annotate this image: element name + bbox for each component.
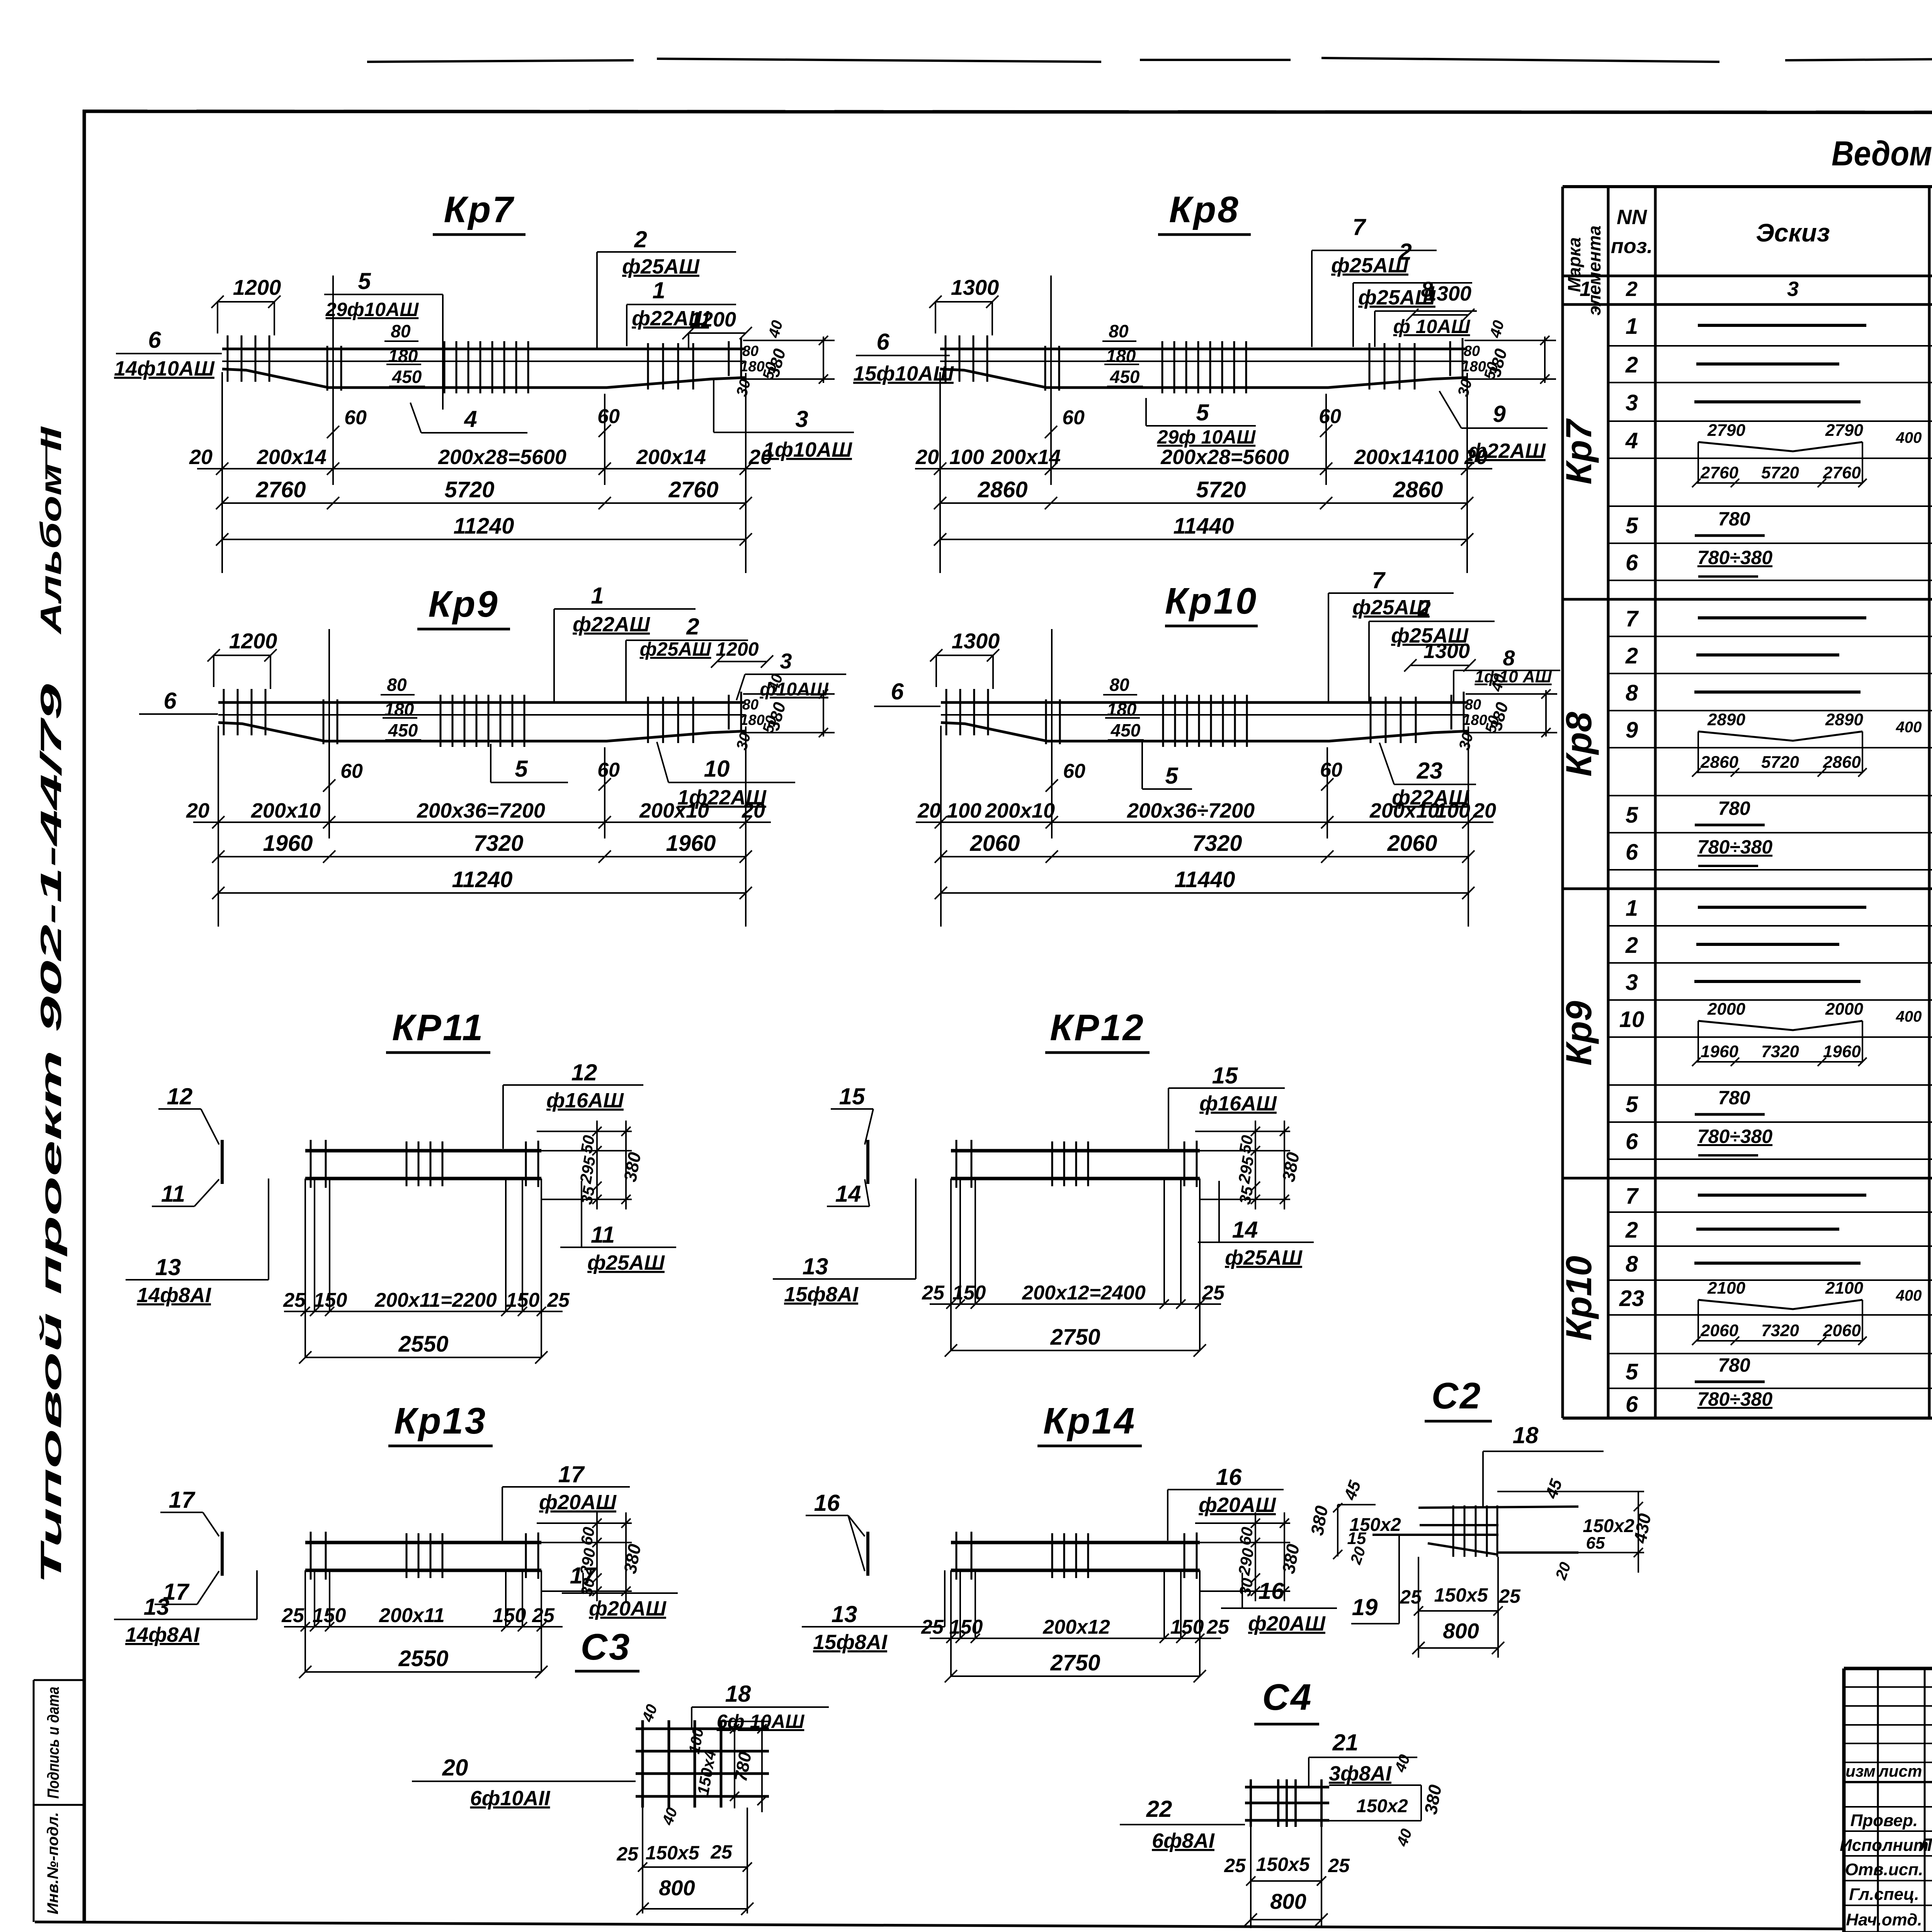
svg-text:КР11: КР11 — [392, 1007, 485, 1048]
svg-text:2550: 2550 — [398, 1646, 448, 1671]
svg-text:С2: С2 — [1432, 1375, 1482, 1417]
svg-text:25: 25 — [1206, 1616, 1230, 1638]
svg-text:80: 80 — [387, 675, 407, 695]
svg-text:7320: 7320 — [1761, 1321, 1799, 1340]
svg-text:60: 60 — [1063, 760, 1085, 782]
svg-text:13: 13 — [155, 1254, 181, 1280]
svg-text:лист: лист — [1878, 1762, 1922, 1780]
svg-text:20: 20 — [442, 1755, 468, 1781]
svg-text:14ф8АI: 14ф8АI — [137, 1284, 211, 1307]
svg-text:780: 780 — [1718, 1087, 1750, 1109]
svg-text:18: 18 — [725, 1681, 751, 1707]
svg-text:8: 8 — [1503, 646, 1515, 670]
svg-text:60: 60 — [597, 759, 620, 781]
svg-text:25: 25 — [1328, 1855, 1350, 1876]
svg-text:ф20АШ: ф20АШ — [1248, 1612, 1326, 1635]
svg-text:200x11: 200x11 — [379, 1604, 445, 1627]
svg-text:7: 7 — [1626, 606, 1639, 631]
svg-text:2: 2 — [686, 614, 699, 639]
svg-text:29ф10АШ: 29ф10АШ — [325, 299, 419, 320]
svg-text:ф22АШ: ф22АШ — [573, 613, 650, 636]
svg-text:ф20АШ: ф20АШ — [589, 1597, 667, 1620]
svg-text:80: 80 — [1465, 697, 1481, 713]
svg-text:30: 30 — [1454, 377, 1475, 398]
svg-text:2860: 2860 — [1823, 753, 1861, 772]
svg-text:2760: 2760 — [255, 477, 306, 502]
svg-text:60: 60 — [597, 405, 620, 428]
svg-text:13: 13 — [832, 1601, 857, 1627]
svg-text:200x28=5600: 200x28=5600 — [438, 446, 566, 469]
svg-text:7320: 7320 — [1761, 1042, 1799, 1061]
svg-text:290: 290 — [1235, 1547, 1257, 1577]
svg-text:3: 3 — [1626, 390, 1638, 415]
svg-text:200x12=2400: 200x12=2400 — [1022, 1282, 1146, 1304]
svg-text:Подпись и дата: Подпись и дата — [44, 1687, 62, 1799]
svg-text:7320: 7320 — [1192, 831, 1242, 856]
svg-text:10: 10 — [704, 756, 730, 782]
svg-text:15ф10АШ: 15ф10АШ — [853, 362, 954, 385]
svg-text:60: 60 — [577, 1526, 598, 1546]
svg-text:6: 6 — [891, 679, 904, 704]
svg-text:200x12: 200x12 — [1043, 1616, 1110, 1638]
svg-text:30: 30 — [733, 377, 754, 398]
svg-text:1200: 1200 — [233, 275, 281, 299]
svg-text:295: 295 — [576, 1155, 599, 1185]
svg-text:17: 17 — [558, 1461, 585, 1487]
svg-text:180: 180 — [388, 346, 418, 366]
svg-text:Нач.отд.: Нач.отд. — [1846, 1910, 1922, 1929]
svg-text:2060: 2060 — [1823, 1321, 1861, 1340]
svg-text:8: 8 — [1626, 1252, 1638, 1277]
svg-text:Кр9: Кр9 — [428, 583, 499, 625]
svg-text:2890: 2890 — [1707, 710, 1745, 729]
svg-text:3: 3 — [795, 406, 808, 432]
svg-text:11240: 11240 — [454, 514, 514, 539]
svg-text:15: 15 — [1212, 1063, 1238, 1088]
svg-text:Кр8: Кр8 — [1169, 189, 1240, 230]
svg-text:ф16АШ: ф16АШ — [546, 1089, 624, 1112]
svg-text:2760: 2760 — [1700, 463, 1738, 482]
svg-text:100: 100 — [949, 446, 984, 469]
svg-text:5: 5 — [358, 268, 371, 294]
svg-text:3: 3 — [1787, 277, 1799, 301]
svg-text:2790: 2790 — [1707, 421, 1745, 440]
svg-text:65: 65 — [1586, 1534, 1605, 1553]
svg-text:2890: 2890 — [1825, 710, 1863, 729]
svg-text:2060: 2060 — [1700, 1321, 1738, 1340]
svg-text:1: 1 — [652, 277, 665, 303]
svg-text:200x10: 200x10 — [251, 799, 321, 822]
svg-text:295: 295 — [1235, 1155, 1257, 1185]
svg-text:7: 7 — [1372, 567, 1386, 593]
svg-text:20: 20 — [189, 446, 213, 469]
svg-text:1960: 1960 — [666, 831, 716, 856]
svg-text:800: 800 — [659, 1876, 695, 1900]
svg-text:ф10АШ: ф10АШ — [760, 679, 829, 700]
svg-text:5720: 5720 — [1761, 463, 1799, 482]
svg-text:NN: NN — [1617, 206, 1647, 229]
svg-text:Кр10: Кр10 — [1558, 1256, 1599, 1341]
svg-text:40: 40 — [659, 1805, 681, 1828]
svg-text:Кр13: Кр13 — [394, 1400, 487, 1442]
svg-text:45: 45 — [1340, 1478, 1365, 1503]
svg-text:4: 4 — [1625, 428, 1638, 453]
svg-text:14: 14 — [835, 1181, 861, 1207]
svg-text:Отв.исп.: Отв.исп. — [1845, 1860, 1923, 1879]
svg-text:6ф10АII: 6ф10АII — [470, 1787, 551, 1810]
svg-text:60: 60 — [344, 406, 367, 429]
svg-text:элемента: элемента — [1584, 226, 1604, 316]
svg-text:6: 6 — [148, 327, 161, 353]
svg-text:17: 17 — [169, 1487, 196, 1513]
svg-text:50: 50 — [1236, 1134, 1257, 1155]
svg-text:1ф10АШ: 1ф10АШ — [763, 438, 852, 461]
svg-text:ф25АШ: ф25АШ — [1225, 1246, 1303, 1269]
svg-text:100: 100 — [947, 799, 981, 822]
svg-text:ф20АШ: ф20АШ — [539, 1491, 617, 1514]
svg-text:100: 100 — [1424, 446, 1459, 469]
svg-text:Исполнит: Исполнит — [1840, 1836, 1929, 1855]
svg-text:780÷380: 780÷380 — [1697, 547, 1772, 568]
svg-text:Кр7: Кр7 — [444, 189, 515, 230]
svg-text:15ф8АI: 15ф8АI — [813, 1631, 888, 1654]
svg-text:ф22АШ: ф22АШ — [1392, 786, 1469, 809]
svg-text:5: 5 — [1626, 1359, 1638, 1384]
svg-text:60: 60 — [1319, 405, 1341, 428]
svg-text:150x5: 150x5 — [645, 1842, 699, 1864]
svg-text:6: 6 — [1626, 840, 1638, 865]
svg-text:150: 150 — [493, 1604, 526, 1627]
svg-text:150: 150 — [506, 1289, 540, 1311]
svg-text:25: 25 — [1498, 1585, 1521, 1607]
svg-text:С3: С3 — [581, 1626, 631, 1668]
svg-text:1960: 1960 — [1701, 1042, 1738, 1061]
svg-text:2100: 2100 — [1825, 1279, 1863, 1298]
svg-text:380: 380 — [620, 1543, 645, 1575]
svg-text:150: 150 — [1170, 1616, 1204, 1638]
svg-text:1: 1 — [1580, 277, 1591, 301]
svg-text:780÷380: 780÷380 — [1697, 1388, 1772, 1410]
svg-text:25: 25 — [710, 1841, 733, 1863]
svg-text:1960: 1960 — [1823, 1042, 1861, 1061]
svg-text:60: 60 — [1236, 1526, 1257, 1546]
svg-text:380: 380 — [1278, 1543, 1303, 1575]
svg-text:25: 25 — [547, 1289, 570, 1311]
svg-text:200x36=7200: 200x36=7200 — [417, 799, 545, 822]
svg-text:2000: 2000 — [1707, 1000, 1745, 1019]
svg-text:400: 400 — [1896, 719, 1922, 736]
svg-text:5: 5 — [1196, 400, 1209, 425]
svg-text:380: 380 — [1278, 1151, 1303, 1184]
svg-text:30: 30 — [733, 731, 754, 752]
svg-text:40: 40 — [1486, 318, 1507, 340]
svg-text:200x14: 200x14 — [257, 446, 327, 469]
svg-text:780: 780 — [1718, 1354, 1750, 1376]
svg-text:2100: 2100 — [1707, 1279, 1745, 1298]
svg-text:380: 380 — [1420, 1783, 1446, 1816]
svg-text:5: 5 — [1626, 1092, 1638, 1117]
svg-text:180: 180 — [1106, 346, 1136, 366]
svg-text:2750: 2750 — [1050, 1650, 1100, 1675]
svg-text:2000: 2000 — [1825, 1000, 1863, 1019]
svg-text:2: 2 — [634, 226, 647, 252]
svg-text:1200: 1200 — [229, 629, 277, 653]
svg-text:С4: С4 — [1262, 1677, 1313, 1718]
svg-text:80: 80 — [391, 321, 411, 341]
svg-text:20: 20 — [1473, 799, 1496, 822]
svg-text:400: 400 — [1896, 1008, 1922, 1025]
svg-text:180: 180 — [1107, 699, 1137, 719]
svg-text:380: 380 — [1485, 347, 1511, 379]
svg-text:2: 2 — [1625, 352, 1638, 378]
svg-text:200x14: 200x14 — [1354, 446, 1424, 469]
svg-text:30: 30 — [1236, 1577, 1257, 1597]
svg-text:2060: 2060 — [969, 831, 1020, 856]
svg-text:20: 20 — [915, 446, 939, 469]
svg-text:ф25АШ: ф25АШ — [640, 638, 712, 660]
svg-text:800: 800 — [1443, 1619, 1479, 1643]
svg-text:7: 7 — [1626, 1184, 1639, 1209]
svg-text:16: 16 — [1216, 1464, 1242, 1490]
svg-text:2790: 2790 — [1825, 421, 1863, 440]
svg-text:Альбом II: Альбом II — [35, 426, 68, 635]
svg-text:2: 2 — [1625, 933, 1638, 958]
svg-text:8: 8 — [1626, 680, 1638, 706]
svg-text:30: 30 — [577, 1577, 598, 1597]
svg-text:3ф8АI: 3ф8АI — [1329, 1762, 1392, 1785]
svg-text:780: 780 — [1718, 508, 1750, 530]
svg-text:11440: 11440 — [1175, 867, 1235, 892]
svg-text:25: 25 — [281, 1604, 304, 1627]
svg-text:14ф10АШ: 14ф10АШ — [114, 357, 215, 380]
svg-text:200x14: 200x14 — [991, 446, 1061, 469]
svg-text:18: 18 — [1513, 1422, 1539, 1448]
svg-text:11: 11 — [161, 1181, 185, 1207]
svg-text:2750: 2750 — [1050, 1325, 1100, 1350]
svg-text:6: 6 — [876, 329, 889, 355]
svg-text:380: 380 — [764, 700, 789, 733]
svg-text:25: 25 — [283, 1289, 306, 1311]
svg-text:2: 2 — [1626, 277, 1638, 301]
svg-text:КР12: КР12 — [1050, 1007, 1145, 1048]
svg-text:5: 5 — [515, 756, 528, 782]
svg-text:Кр9: Кр9 — [1558, 1001, 1599, 1065]
svg-text:ф25АШ: ф25АШ — [587, 1251, 665, 1274]
svg-text:5720: 5720 — [444, 477, 494, 502]
svg-text:5: 5 — [1626, 513, 1638, 538]
svg-text:16: 16 — [814, 1490, 840, 1516]
svg-text:1: 1 — [1626, 896, 1638, 921]
svg-text:80: 80 — [1109, 321, 1129, 341]
svg-text:Провер.: Провер. — [1850, 1811, 1918, 1830]
svg-text:Гл.спец.: Гл.спец. — [1849, 1885, 1919, 1904]
svg-text:Инв.№-подл.: Инв.№-подл. — [44, 1812, 61, 1915]
svg-text:5: 5 — [1165, 763, 1179, 789]
svg-text:изм: изм — [1845, 1762, 1876, 1780]
svg-text:400: 400 — [1896, 1287, 1922, 1304]
svg-text:150x5: 150x5 — [1256, 1854, 1310, 1875]
svg-text:6: 6 — [1626, 1392, 1638, 1417]
svg-text:150x5: 150x5 — [1434, 1584, 1488, 1606]
svg-text:25: 25 — [921, 1616, 944, 1638]
svg-text:ф25АШ: ф25АШ — [622, 255, 700, 278]
svg-text:3: 3 — [1626, 970, 1638, 995]
svg-text:15ф8АI: 15ф8АI — [784, 1283, 859, 1306]
svg-text:780÷380: 780÷380 — [1697, 1126, 1772, 1147]
svg-text:1: 1 — [1626, 314, 1638, 339]
svg-text:2060: 2060 — [1387, 831, 1437, 856]
svg-text:1200: 1200 — [690, 308, 736, 331]
svg-text:поз.: поз. — [1611, 235, 1653, 258]
svg-text:20: 20 — [1552, 1560, 1574, 1582]
svg-text:200x36÷7200: 200x36÷7200 — [1127, 799, 1255, 822]
svg-text:5720: 5720 — [1761, 753, 1799, 772]
svg-text:20: 20 — [917, 799, 941, 822]
svg-text:14ф8АI: 14ф8АI — [125, 1623, 200, 1646]
svg-text:150: 150 — [313, 1604, 346, 1627]
svg-text:35: 35 — [1236, 1185, 1257, 1206]
svg-text:13: 13 — [803, 1253, 828, 1279]
svg-text:80: 80 — [742, 697, 759, 713]
svg-text:50: 50 — [577, 1134, 598, 1155]
svg-text:2860: 2860 — [1393, 477, 1443, 502]
svg-text:450: 450 — [1110, 367, 1140, 387]
svg-text:2550: 2550 — [398, 1332, 448, 1357]
svg-text:1960: 1960 — [263, 831, 313, 856]
svg-text:Кр8: Кр8 — [1558, 712, 1599, 777]
svg-text:200x14: 200x14 — [636, 446, 706, 469]
svg-text:13: 13 — [144, 1594, 170, 1620]
svg-text:60: 60 — [1062, 406, 1085, 429]
svg-text:6ф8АI: 6ф8АI — [1152, 1829, 1215, 1852]
svg-text:1300: 1300 — [951, 275, 999, 299]
svg-text:2: 2 — [1625, 643, 1638, 668]
svg-text:25: 25 — [1202, 1282, 1225, 1304]
svg-text:200x10: 200x10 — [985, 799, 1055, 822]
svg-text:Ведомость стержней на один эле: Ведомость стержней на один элемент — [1832, 134, 1932, 173]
svg-text:1300: 1300 — [952, 629, 1000, 653]
svg-text:12: 12 — [571, 1060, 597, 1085]
svg-text:15: 15 — [1347, 1529, 1366, 1548]
svg-text:80: 80 — [742, 343, 759, 359]
svg-text:150x4: 150x4 — [694, 1749, 719, 1796]
svg-text:45: 45 — [1542, 1476, 1566, 1501]
svg-text:40: 40 — [1391, 1752, 1413, 1775]
svg-text:ф 10АШ: ф 10АШ — [1393, 316, 1471, 337]
svg-text:380: 380 — [1307, 1504, 1332, 1537]
svg-text:60: 60 — [1320, 759, 1342, 781]
svg-text:23: 23 — [1619, 1286, 1645, 1311]
svg-text:1ф10 АШ: 1ф10 АШ — [1475, 667, 1552, 686]
svg-text:2760: 2760 — [668, 477, 718, 502]
svg-text:20: 20 — [186, 799, 209, 822]
svg-text:30: 30 — [1456, 731, 1476, 752]
svg-text:1ф22АШ: 1ф22АШ — [677, 786, 767, 809]
svg-text:ф20АШ: ф20АШ — [1199, 1493, 1276, 1517]
svg-text:23: 23 — [1417, 758, 1443, 784]
svg-text:11440: 11440 — [1173, 514, 1234, 539]
svg-text:ф25АШ: ф25АШ — [1331, 254, 1409, 277]
svg-text:200x28=5600: 200x28=5600 — [1160, 446, 1289, 469]
svg-text:2: 2 — [1625, 1218, 1638, 1243]
svg-text:2860: 2860 — [1700, 753, 1738, 772]
svg-text:380: 380 — [764, 347, 789, 379]
svg-text:Типовой проект 902-1-44/79: Типовой проект 902-1-44/79 — [35, 684, 68, 1584]
svg-text:150: 150 — [952, 1282, 986, 1304]
svg-text:Кр7: Кр7 — [1558, 418, 1599, 485]
svg-text:1: 1 — [591, 583, 604, 609]
svg-text:Кр10: Кр10 — [1165, 580, 1258, 622]
svg-text:Литвиненко: Литвиненко — [1918, 1835, 1932, 1855]
svg-text:150: 150 — [314, 1289, 347, 1311]
svg-text:2: 2 — [1417, 595, 1430, 621]
svg-text:800: 800 — [1270, 1889, 1306, 1913]
svg-text:200x11=2200: 200x11=2200 — [374, 1289, 497, 1311]
svg-text:7: 7 — [1352, 214, 1366, 240]
svg-text:3: 3 — [780, 649, 792, 673]
svg-text:400: 400 — [1896, 429, 1922, 446]
svg-text:2860: 2860 — [977, 477, 1027, 502]
svg-text:2: 2 — [1398, 239, 1412, 265]
svg-text:ф22АШ: ф22АШ — [1468, 439, 1546, 463]
svg-text:60: 60 — [340, 760, 363, 782]
svg-text:11: 11 — [591, 1222, 615, 1248]
svg-text:Эскиз: Эскиз — [1756, 218, 1830, 247]
svg-text:22: 22 — [1146, 1796, 1172, 1822]
svg-text:6: 6 — [1626, 550, 1638, 575]
svg-text:4: 4 — [464, 406, 477, 432]
svg-text:5720: 5720 — [1196, 477, 1246, 502]
svg-text:7320: 7320 — [473, 831, 523, 856]
svg-text:19: 19 — [1352, 1594, 1378, 1620]
svg-text:14: 14 — [1232, 1217, 1258, 1243]
svg-text:10: 10 — [1619, 1007, 1645, 1032]
svg-text:2760: 2760 — [1823, 463, 1861, 482]
svg-text:1300: 1300 — [1423, 639, 1470, 663]
svg-text:450: 450 — [1111, 720, 1141, 740]
svg-text:25: 25 — [532, 1604, 555, 1627]
svg-text:80: 80 — [1464, 343, 1480, 359]
svg-text:9: 9 — [1626, 718, 1638, 743]
svg-text:80: 80 — [1109, 675, 1129, 695]
svg-text:450: 450 — [392, 367, 422, 387]
svg-text:21: 21 — [1332, 1730, 1359, 1755]
svg-text:780÷380: 780÷380 — [1697, 836, 1772, 858]
svg-text:150: 150 — [949, 1616, 983, 1638]
svg-text:40: 40 — [765, 318, 786, 340]
svg-text:11240: 11240 — [452, 867, 513, 892]
svg-text:5: 5 — [1626, 803, 1638, 828]
svg-text:12: 12 — [167, 1083, 193, 1109]
svg-text:6: 6 — [1626, 1129, 1638, 1154]
svg-text:25: 25 — [922, 1282, 945, 1304]
svg-text:25: 25 — [1224, 1855, 1246, 1876]
svg-text:6: 6 — [163, 688, 177, 714]
svg-text:9: 9 — [1493, 401, 1506, 427]
svg-text:ф16АШ: ф16АШ — [1199, 1092, 1277, 1115]
svg-text:35: 35 — [577, 1185, 599, 1206]
svg-text:150x2: 150x2 — [1356, 1796, 1408, 1816]
svg-text:8: 8 — [1421, 277, 1433, 301]
svg-text:25: 25 — [616, 1843, 639, 1865]
svg-text:Кр14: Кр14 — [1043, 1400, 1136, 1442]
svg-text:29ф 10АШ: 29ф 10АШ — [1157, 426, 1256, 448]
svg-text:450: 450 — [388, 720, 418, 740]
svg-text:40: 40 — [1393, 1827, 1415, 1849]
svg-text:380: 380 — [1486, 700, 1512, 733]
svg-text:15: 15 — [839, 1083, 866, 1109]
svg-text:180: 180 — [384, 699, 414, 719]
